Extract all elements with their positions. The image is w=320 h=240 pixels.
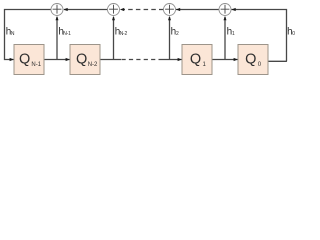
wire register QN-1 output to QN-2 with tap bbox=[44, 17, 70, 60]
arrowhead into adder3 bbox=[176, 8, 180, 11]
svg-text:N-1: N-1 bbox=[63, 31, 71, 37]
arrowhead into register Q0 bbox=[234, 58, 238, 61]
wire register QN-2 output to Q1 partly dashed with taps bbox=[100, 17, 182, 60]
wire top dashed segment adder3 to adder2 bbox=[124, 9, 164, 11]
label h0 bbox=[287, 27, 295, 38]
register Q1 bbox=[182, 45, 212, 75]
svg-text:Q: Q bbox=[76, 51, 87, 67]
label hN bbox=[6, 27, 15, 38]
svg-text:Q: Q bbox=[245, 51, 256, 67]
svg-text:Q: Q bbox=[190, 51, 201, 67]
wire top-left corner down to register input bbox=[5, 10, 52, 60]
arrowhead into register QN-2 bbox=[66, 58, 70, 61]
wire feedback right vertical and top segment into adder4 bbox=[232, 10, 287, 62]
wire register Q0 output to right feedback bbox=[268, 60, 287, 62]
arrowhead into adder2 bbox=[120, 8, 124, 11]
svg-text:N-2: N-2 bbox=[120, 31, 128, 37]
adder A4 bbox=[219, 4, 231, 16]
arrowhead into register Q1 bbox=[178, 58, 182, 61]
wire top segment adder2 to adder1 bbox=[64, 9, 108, 11]
wire top segment adder4 to adder3 bbox=[176, 9, 219, 11]
arrowhead into register QN-1 bbox=[10, 58, 14, 61]
register Q0 bbox=[238, 45, 268, 75]
arrowhead into adder4 bbox=[231, 8, 235, 11]
label h1 bbox=[227, 27, 235, 38]
label hN-2 bbox=[115, 27, 128, 38]
label h2 bbox=[171, 27, 179, 38]
arrowhead up into adder2 bbox=[112, 16, 115, 20]
label hN-1 bbox=[58, 27, 71, 38]
svg-text:N-2: N-2 bbox=[88, 62, 98, 68]
register QN-2 bbox=[70, 45, 100, 75]
svg-text:Q: Q bbox=[19, 51, 30, 67]
arrowhead into adder1 bbox=[63, 8, 67, 11]
adder A1 bbox=[51, 4, 63, 16]
arrowhead up into adder1 bbox=[56, 16, 59, 20]
svg-text:N-1: N-1 bbox=[31, 62, 41, 68]
arrowhead up into adder4 bbox=[224, 16, 227, 20]
adder A2 bbox=[108, 4, 120, 16]
adder A3 bbox=[164, 4, 176, 16]
wire register Q1 output to Q0 with tap bbox=[212, 17, 238, 60]
arrowhead up into adder3 bbox=[168, 16, 171, 20]
register QN-1 bbox=[14, 45, 44, 75]
